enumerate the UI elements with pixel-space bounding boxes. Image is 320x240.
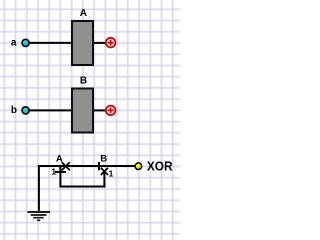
supply terminal +V (row A) <box>106 38 116 48</box>
relay coil A <box>72 21 93 65</box>
wire coil A to supply <box>93 42 106 44</box>
svg-text:b: b <box>11 105 17 116</box>
svg-text:1: 1 <box>109 168 114 178</box>
input port b <box>22 107 29 114</box>
branch A wire (down to lower rail) <box>59 165 61 188</box>
svg-text:B: B <box>100 154 107 165</box>
svg-text:XOR: XOR <box>147 159 173 174</box>
wire a to coil A <box>28 42 72 44</box>
contact B open (tick) on top rail <box>98 162 100 170</box>
branch B wire (down to lower rail) <box>103 171 105 187</box>
svg-text:B: B <box>80 76 87 87</box>
wire b to coil B <box>28 109 72 111</box>
svg-text:1: 1 <box>51 166 56 176</box>
wire: ground drop <box>38 165 40 211</box>
supply terminal +V (row B) <box>106 106 116 116</box>
wire coil B to supply <box>93 109 106 111</box>
contact A-1 open (tick) on branch A <box>55 171 66 173</box>
ground <box>28 212 51 220</box>
svg-text:A: A <box>80 8 87 19</box>
contact B-1 closed (X) on branch B <box>101 168 108 175</box>
output lamp XOR <box>135 163 142 170</box>
wire: lower rail (U bottom) <box>59 186 105 188</box>
relay coil B <box>72 89 93 133</box>
input port a <box>22 39 29 46</box>
wire: top rail ground to lamp <box>38 165 135 167</box>
contact A closed (X) on top rail <box>62 162 70 170</box>
svg-text:a: a <box>11 37 17 48</box>
